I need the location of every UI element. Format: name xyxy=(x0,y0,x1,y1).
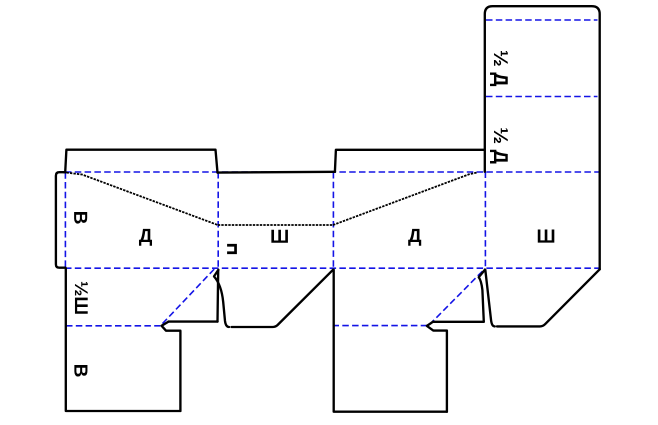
fold top panel mid xyxy=(486,96,598,98)
cut horizontal above mid panel right xyxy=(433,321,484,323)
fold vertical glue flap xyxy=(64,172,66,268)
right sliver left side xyxy=(479,270,485,322)
fold bottom-mid diagonal xyxy=(430,269,486,325)
cut horizontal above B panel right xyxy=(169,320,218,322)
top tall panel outline xyxy=(485,6,600,269)
dotted horizontal Sh panel xyxy=(218,224,333,226)
beak mid panel xyxy=(427,322,447,412)
fold bottom-left flap horizontal xyxy=(66,325,160,327)
right sliver right side xyxy=(485,270,495,327)
fold vertical D2/Sh2 xyxy=(484,172,486,269)
label half-Ш flap xyxy=(75,282,88,314)
label Д left panel xyxy=(139,229,152,246)
label Ш right panel xyxy=(538,230,555,243)
Sh bottom flap left curve / sliver right xyxy=(214,270,229,327)
label half-Д lower xyxy=(490,128,508,163)
label half-Д upper xyxy=(490,51,508,86)
bottom mid panel xyxy=(334,270,447,412)
top tab 1 outline xyxy=(65,150,217,173)
dotted diagonal right D panel xyxy=(333,172,477,225)
label В main band xyxy=(74,212,87,224)
fold line top band xyxy=(65,171,600,173)
label Ш top panel xyxy=(271,230,288,243)
label Д right panel xyxy=(408,229,421,246)
fold bottom-left diagonal xyxy=(163,269,215,324)
label П strip xyxy=(227,244,237,254)
right bevel cut xyxy=(497,269,600,326)
left sliver left side xyxy=(216,270,219,321)
top tab 2 outline xyxy=(335,150,485,172)
shoulder cut between tabs xyxy=(218,171,336,174)
fold vertical Sh/D2 xyxy=(332,172,334,268)
Sh bottom flap diagonal xyxy=(232,270,334,327)
dotted fold lines xyxy=(63,172,477,225)
dotted diagonal left D panel xyxy=(63,172,218,225)
glue flap left outline xyxy=(56,172,66,268)
cut lines xyxy=(56,6,600,412)
bottom B panel xyxy=(66,268,181,411)
label В bottom panel xyxy=(74,365,87,377)
fold bottom-mid flap horizontal xyxy=(333,325,428,327)
fold vertical D1/P xyxy=(217,172,219,268)
fold top panel upper xyxy=(486,19,598,21)
beak B panel xyxy=(162,322,181,411)
fold line bottom band xyxy=(65,267,600,269)
